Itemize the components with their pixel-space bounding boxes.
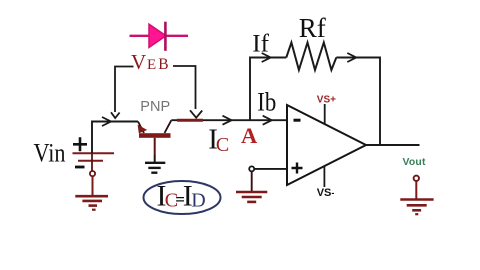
transistor Q1 collector lead: [165, 120, 172, 133]
battery B1 plates: [73, 153, 115, 161]
svg-text:VS+: VS+: [317, 94, 336, 105]
svg-text:R: R: [299, 13, 317, 43]
svg-text:Ib: Ib: [257, 87, 276, 116]
wire Vout node to ground: [415, 181, 417, 199]
svg-text:f: f: [317, 13, 326, 43]
node battery-ground: [90, 171, 95, 176]
node circle at plus input: [249, 166, 254, 171]
ground at op-amp plus input: [236, 192, 267, 202]
wire VS+ lead: [324, 104, 326, 124]
wire VS- lead: [323, 167, 325, 188]
ground under Vout: [400, 200, 433, 215]
wire VEB left arm with arrow: [111, 67, 134, 119]
wire base down: [154, 138, 156, 155]
svg-text:D: D: [191, 190, 205, 212]
label IC=ID: [157, 179, 206, 212]
transistor Q1 emitter arrow: [138, 125, 148, 134]
wire battery to node: [91, 153, 93, 171]
wire feedback left vertical: [250, 58, 286, 121]
svg-text:V: V: [131, 50, 146, 74]
op-amp minus sign: [294, 119, 301, 122]
svg-text:C: C: [216, 134, 229, 156]
transistor Q1 base bar: [139, 133, 171, 138]
wire collector to op-amp with arrows: [171, 116, 287, 125]
diode D1: [130, 22, 189, 51]
svg-text:Vin: Vin: [34, 138, 66, 167]
wire Vin up and right with arrow: [92, 117, 138, 153]
wire VEB right arm with arrow: [173, 66, 202, 118]
resistor Rf zigzag: [286, 43, 336, 71]
svg-text:Vout: Vout: [403, 157, 426, 168]
svg-text:PNP: PNP: [140, 99, 170, 115]
ellipse around IC=ID: [144, 181, 221, 214]
op-amp U1 triangle: [287, 105, 366, 185]
svg-text:E: E: [147, 57, 156, 73]
wire node to ground: [251, 172, 253, 192]
wire node to ground: [92, 176, 94, 196]
svg-text:If: If: [252, 30, 269, 57]
svg-text:A: A: [241, 123, 258, 148]
wire noninverting input: [254, 168, 287, 170]
label VEB: [131, 50, 169, 74]
transistor Q1 emitter lead: [138, 122, 144, 134]
ground under Vin: [75, 196, 108, 210]
ground under transistor base: [145, 163, 165, 173]
wire resistor to right corner with arrow: [336, 53, 380, 145]
node circle at Vout ground: [414, 176, 419, 181]
op-amp plus sign: [292, 163, 303, 174]
label IC: [208, 123, 229, 156]
wire op-amp output: [366, 144, 420, 146]
svg-text:B: B: [158, 56, 168, 73]
battery B1 minus sign: [75, 166, 85, 169]
arrow If on feedback wire: [262, 53, 271, 62]
svg-text:VS-: VS-: [317, 187, 335, 199]
battery B1 plus sign: [73, 137, 87, 151]
